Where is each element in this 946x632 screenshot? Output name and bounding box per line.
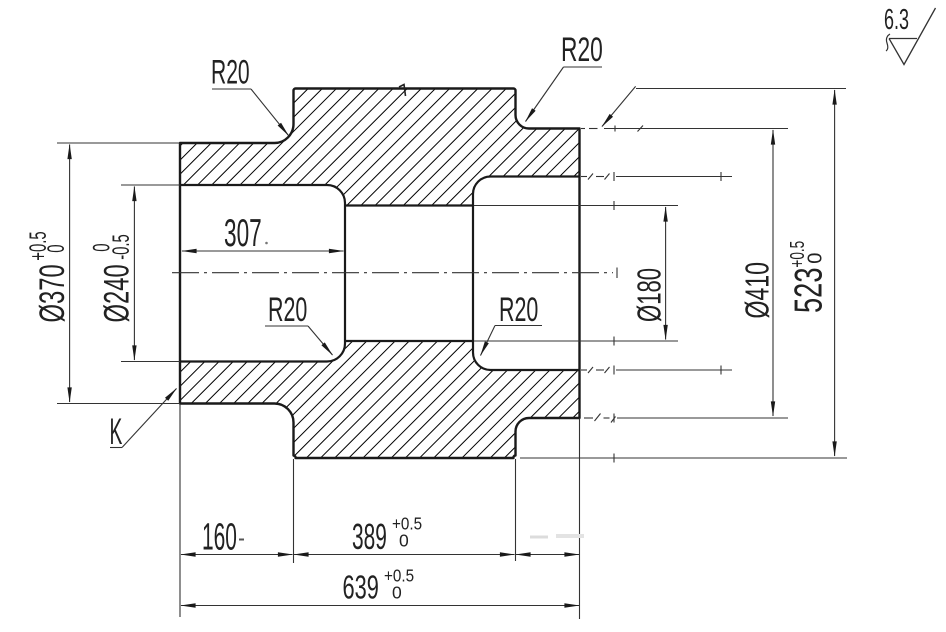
svg-text:R20: R20 — [211, 52, 250, 90]
dimension line 523 — [834, 90, 836, 456]
slash mark on Ø410 top extension — [638, 126, 644, 132]
svg-text:R20: R20 — [561, 32, 603, 70]
svg-text:307: 307 — [224, 211, 262, 255]
bore Ø180 lower edge — [345, 340, 473, 342]
bore Ø240 profile with step face at x=345 — [180, 185, 345, 362]
tick on Ø410 top extension — [614, 126, 616, 132]
svg-text:K: K — [110, 411, 123, 452]
jog leader to Ø410 surface — [602, 86, 636, 126]
dimension line 307 — [182, 250, 344, 252]
extension line Ø180 bottom — [474, 340, 678, 342]
bore Ø180 upper edge — [345, 204, 473, 206]
dimension line Ø180 — [665, 207, 667, 340]
stray mark on top edge — [399, 85, 406, 97]
dimension line 639 — [181, 605, 579, 607]
right bore step face at x=473 — [473, 177, 580, 371]
extension line Ø240 bottom — [121, 361, 180, 363]
label Ø410 — [740, 262, 777, 318]
section hatching upper half — [180, 89, 580, 206]
extension line x=293.5 — [293, 459, 295, 563]
leader R20 bottom-left — [265, 325, 308, 327]
extension line Ø410 bottom (dashed start) — [584, 417, 593, 419]
svg-text:Ø410: Ø410 — [740, 262, 777, 318]
svg-text:R20: R20 — [268, 291, 307, 329]
extension line Ø240 top — [121, 184, 180, 186]
leader K — [110, 447, 122, 449]
extension line 523 bottom — [520, 457, 847, 459]
center line end tick — [616, 268, 618, 279]
leader R20 top-right — [564, 66, 603, 68]
svg-text:0: 0 — [392, 583, 402, 603]
svg-text:639: 639 — [343, 569, 379, 606]
svg-text:160: 160 — [202, 516, 237, 558]
label Ø180 — [631, 268, 667, 322]
extension line Ø180 top — [474, 205, 678, 207]
faint erased-text remnants — [530, 536, 548, 539]
dimension line 160 — [181, 554, 293, 556]
part outer profile — [180, 89, 580, 459]
extension line right face — [579, 419, 581, 620]
svg-text:389: 389 — [352, 517, 387, 557]
extension line x=515.5 — [515, 459, 517, 561]
label 523 +0.5/0 — [788, 267, 831, 313]
phantom line right bore bottom — [581, 369, 587, 371]
label Ø370 +0.5/0 — [34, 264, 73, 322]
extension line Ø410 top (dashed start) — [581, 128, 585, 130]
dimension line Ø410 — [772, 130, 774, 416]
svg-text:0: 0 — [399, 531, 409, 551]
svg-text:Ø180: Ø180 — [631, 268, 667, 322]
label Ø240 0/-0.5 — [98, 264, 137, 322]
svg-text:R20: R20 — [499, 291, 538, 329]
residual tick marks at x=614 — [613, 172, 615, 181]
extension line 523 top — [636, 88, 846, 90]
section hatching lower half — [180, 341, 580, 458]
phantom line right bore top — [581, 176, 587, 178]
leader R20 bottom-right — [495, 325, 542, 327]
svg-text:0: 0 — [44, 244, 70, 252]
svg-text:523: 523 — [788, 267, 831, 313]
svg-text:-0.5: -0.5 — [109, 234, 135, 260]
leader R20 top-left — [212, 88, 251, 90]
extension line Ø370 top — [57, 142, 180, 144]
extension line left face — [179, 404, 181, 617]
dimension line Ø240 — [133, 187, 135, 361]
svg-text:Ø370: Ø370 — [34, 264, 73, 322]
dimension line right section — [516, 554, 579, 556]
svg-text:0: 0 — [805, 253, 827, 264]
dimension line Ø370 — [69, 145, 71, 403]
dimension line 389 — [294, 554, 515, 556]
extension line Ø370 bottom — [57, 403, 180, 405]
center line — [172, 272, 613, 274]
svg-text:Ø240: Ø240 — [98, 264, 137, 322]
svg-text:6.3: 6.3 — [884, 4, 909, 36]
